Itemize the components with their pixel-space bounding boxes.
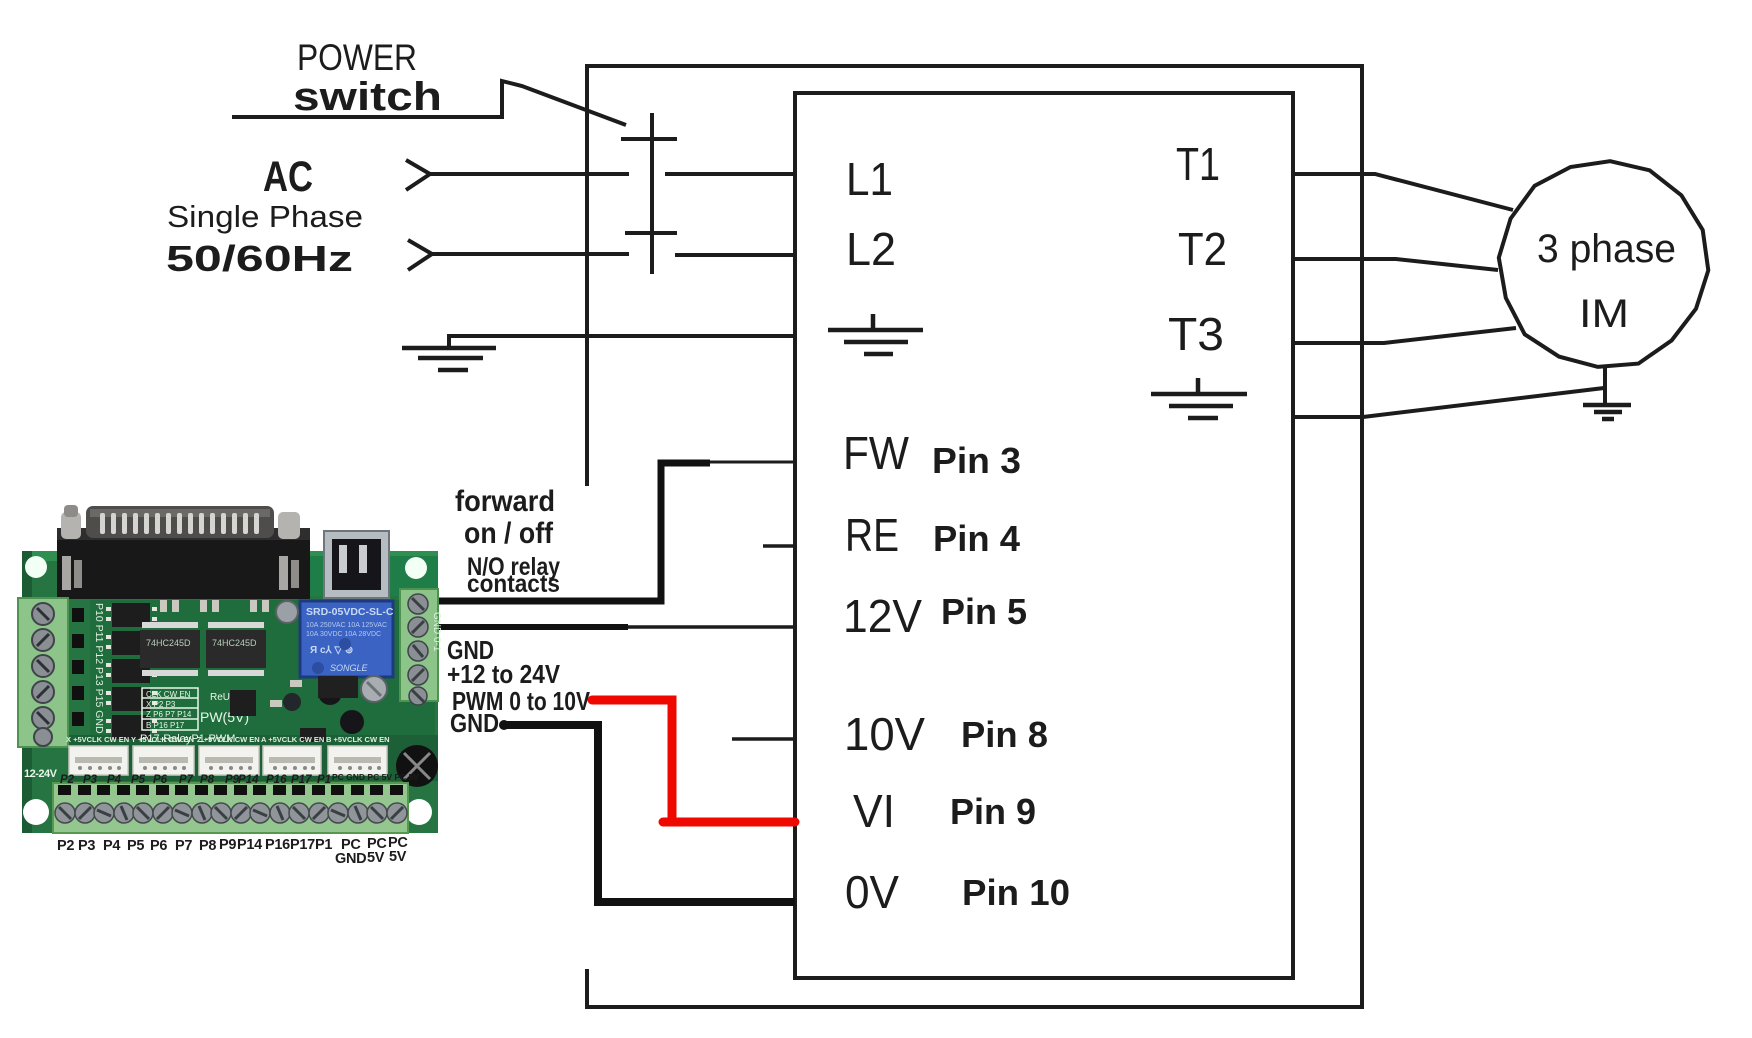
svg-text:50/60Hz: 50/60Hz — [166, 238, 353, 279]
svg-text:74HC245D: 74HC245D — [212, 638, 257, 648]
svg-text:Pin 8: Pin 8 — [961, 714, 1048, 755]
svg-text:P14: P14 — [237, 837, 262, 853]
svg-text:X +5VCLK CW EN: X +5VCLK CW EN — [66, 735, 129, 744]
contactor contact 1 — [621, 137, 677, 141]
junction dot: GND wire start — [499, 720, 509, 730]
svg-text:5V: 5V — [389, 849, 407, 865]
wire: 12V thin line — [624, 625, 795, 629]
PCB: silkscreen table — [142, 688, 198, 730]
wire: FW thin stub — [708, 461, 795, 464]
wire: T3 to motor — [1293, 328, 1516, 343]
PCB: DB25 screw post right — [278, 512, 300, 539]
svg-text:switch: switch — [293, 75, 442, 119]
svg-text:Pin 4: Pin 4 — [933, 518, 1020, 559]
svg-text:B P16 P17: B P16 P17 — [146, 721, 185, 730]
svg-text:Pin 3: Pin 3 — [932, 440, 1021, 481]
svg-text:10V: 10V — [844, 708, 925, 760]
PCB: board substrate — [22, 551, 438, 833]
motor: 3 phase IM circle — [1499, 161, 1709, 367]
PCB: silk pin row above bottom terminal — [60, 772, 419, 786]
svg-text:0V: 0V — [845, 866, 899, 918]
wire: PWM 0-10V (red) — [592, 700, 795, 822]
PCB: SMD resistor marks — [160, 600, 302, 707]
contactor linkage bar — [650, 113, 654, 274]
PCB: white JST connectors row — [69, 746, 387, 775]
PCB: misc small components — [230, 690, 256, 716]
PCB: relay (blue) — [300, 601, 393, 677]
wire: AC line 1 (right of contactor) — [665, 172, 795, 176]
svg-text:P6: P6 — [150, 838, 167, 854]
AC input arrow 2 — [408, 240, 432, 270]
PCB: USB connector — [324, 531, 389, 598]
contactor contact 2 — [625, 231, 677, 235]
svg-text:P7: P7 — [175, 838, 192, 854]
svg-text:P4: P4 — [107, 774, 122, 786]
wire: 10V stub — [732, 737, 795, 741]
PCB: opto pin dots — [106, 607, 157, 733]
svg-text:on / off: on / off — [464, 517, 554, 550]
svg-text:P14: P14 — [238, 774, 259, 786]
svg-text:VI: VI — [853, 785, 895, 837]
svg-text:10A 250VAC 10A 125VAC: 10A 250VAC 10A 125VAC — [306, 622, 387, 629]
svg-text:P4: P4 — [103, 838, 120, 854]
svg-text:T2: T2 — [1178, 223, 1227, 275]
PCB: DB25 metal shroud with pin slots — [86, 506, 274, 538]
svg-text:Single Phase: Single Phase — [167, 199, 363, 234]
svg-text:12-24V: 12-24V — [24, 768, 58, 780]
wire: GND/+12-24V supply (thick black) — [435, 624, 628, 630]
svg-text:Z P6 P7 P14: Z P6 P7 P14 — [146, 710, 192, 719]
PCB: DB25 screw post left — [61, 512, 81, 539]
svg-text:CLK CW EN: CLK CW EN — [146, 690, 191, 699]
PCB: optocoupler column — [112, 603, 150, 739]
svg-text:P16: P16 — [265, 837, 290, 853]
svg-text:Z +5VCLK CW EN: Z +5VCLK CW EN — [197, 735, 260, 744]
VFD inner box — [795, 93, 1293, 978]
wire: T2 to motor — [1293, 259, 1498, 270]
wire: T1 to motor — [1293, 174, 1513, 210]
svg-text:74HC245D: 74HC245D — [146, 638, 191, 648]
svg-text:contacts: contacts — [467, 570, 560, 598]
svg-text:3 phase: 3 phase — [1537, 227, 1676, 271]
PCB: left terminal teeth — [72, 608, 84, 726]
PCB: DB25 jack screws — [62, 556, 71, 590]
wire: power switch lever lead — [232, 81, 626, 125]
svg-text:L1: L1 — [846, 153, 893, 205]
svg-text:A +5VCLK CW EN: A +5VCLK CW EN — [261, 735, 324, 744]
PCB: mounting holes — [25, 556, 47, 578]
svg-text:P9: P9 — [219, 837, 236, 853]
PCB: IC chips 74HC245D — [140, 630, 200, 668]
AC input arrow 1 — [406, 160, 430, 190]
svg-text:SRD-05VDC-SL-C: SRD-05VDC-SL-C — [306, 606, 394, 618]
wire: RE stub — [763, 544, 795, 548]
svg-text:RE: RE — [845, 509, 899, 561]
svg-text:SONGLE: SONGLE — [330, 663, 369, 673]
wire: AC line 2 (left of contactor) — [430, 252, 629, 256]
svg-text:T1: T1 — [1176, 138, 1220, 190]
svg-text:B +5VCLK CW EN: B +5VCLK CW EN — [326, 735, 390, 744]
svg-text:P8: P8 — [200, 774, 215, 786]
svg-text:GND: GND — [335, 851, 366, 867]
PCB: bottom terminal block — [53, 783, 408, 833]
svg-text:IM: IM — [1579, 292, 1629, 336]
ground symbol (below T3) — [1151, 378, 1247, 418]
ground symbol (inner box, input side) — [828, 314, 923, 354]
svg-text:L2: L2 — [846, 223, 896, 275]
svg-text:10A 30VDC 10A 28VDC: 10A 30VDC 10A 28VDC — [306, 631, 381, 638]
svg-text:PC GND PC 5V PC 5V: PC GND PC 5V PC 5V — [332, 772, 419, 782]
VFD outer enclosure box — [587, 66, 1362, 1007]
ground symbol (motor) — [1583, 405, 1631, 419]
svg-text:P1: P1 — [317, 774, 331, 786]
svg-text:forward: forward — [455, 485, 555, 518]
svg-text:AC: AC — [263, 153, 313, 201]
wire: AC line 1 (left of contactor) — [428, 172, 629, 176]
PCB: electrolytic caps — [276, 601, 298, 623]
PCB: big capacitor bottom right — [396, 745, 438, 787]
svg-text:P2: P2 — [60, 774, 75, 786]
svg-text:POWER: POWER — [297, 37, 417, 78]
svg-text:P6: P6 — [153, 774, 168, 786]
svg-text:P16: P16 — [266, 774, 287, 786]
wire: motor frame ground lead — [1293, 388, 1604, 417]
svg-text:Y +5VCLK CW EN: Y +5VCLK CW EN — [131, 735, 194, 744]
svg-text:P7: P7 — [179, 774, 194, 786]
svg-text:GND: GND — [450, 708, 499, 738]
svg-text:GND 0-1: GND 0-1 — [431, 612, 442, 652]
label pin names under board — [57, 835, 408, 867]
svg-text:P17: P17 — [291, 774, 312, 786]
svg-text:12V: 12V — [843, 590, 922, 642]
svg-text:Pin 9: Pin 9 — [950, 791, 1036, 832]
svg-text:FW: FW — [843, 427, 910, 479]
svg-text:P17: P17 — [290, 837, 315, 853]
wire: AC ground lead — [449, 336, 795, 348]
svg-text:Pin 5: Pin 5 — [941, 591, 1027, 632]
PCB: right terminal block (relay outputs) — [400, 589, 438, 701]
svg-text:P3: P3 — [78, 838, 95, 854]
wire: relay N/O forward (thick black) — [428, 463, 710, 601]
wire: motor ground stub — [1603, 366, 1607, 405]
svg-text:P10 P11 P12 P13 P15 GND: P10 P11 P12 P13 P15 GND — [93, 603, 105, 734]
svg-text:Pin 10: Pin 10 — [962, 872, 1070, 913]
earth ground symbol (AC input) — [402, 348, 496, 370]
svg-text:P1: P1 — [315, 837, 332, 853]
svg-text:P8: P8 — [199, 838, 216, 854]
svg-text:T3: T3 — [1168, 308, 1224, 360]
svg-text:+12 to 24V: +12 to 24V — [447, 659, 561, 689]
svg-text:P3: P3 — [83, 774, 98, 786]
wire: AC line 2 (right of contactor) — [675, 253, 795, 257]
svg-text:P2: P2 — [57, 838, 74, 854]
PCB: DB25 connector body — [57, 536, 310, 599]
svg-text:5V: 5V — [367, 850, 385, 866]
PCB: left terminal block — [18, 598, 68, 747]
svg-text:P5: P5 — [127, 838, 144, 854]
wire: analog GND (thick black) — [503, 725, 795, 902]
svg-text:X P2 P3: X P2 P3 — [146, 700, 176, 709]
svg-text:P5: P5 — [131, 774, 146, 786]
